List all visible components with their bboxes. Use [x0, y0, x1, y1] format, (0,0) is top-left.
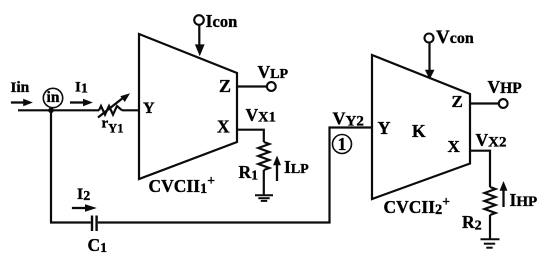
- svg-text:I2: I2: [77, 186, 90, 204]
- svg-text:X: X: [448, 137, 461, 156]
- svg-text:VHP: VHP: [488, 77, 523, 97]
- svg-text:Y: Y: [378, 118, 391, 138]
- svg-text:Z: Z: [219, 76, 231, 96]
- svg-text:Iin: Iin: [11, 79, 30, 96]
- svg-text:K: K: [412, 121, 426, 141]
- svg-text:Y: Y: [143, 100, 155, 117]
- svg-text:X: X: [217, 117, 230, 137]
- svg-text:Vcon: Vcon: [436, 27, 474, 48]
- svg-text:in: in: [47, 89, 60, 106]
- svg-text:1: 1: [338, 134, 347, 154]
- svg-text:I1: I1: [75, 79, 88, 96]
- svg-text:Z: Z: [452, 92, 463, 111]
- svg-text:Icon: Icon: [206, 11, 238, 31]
